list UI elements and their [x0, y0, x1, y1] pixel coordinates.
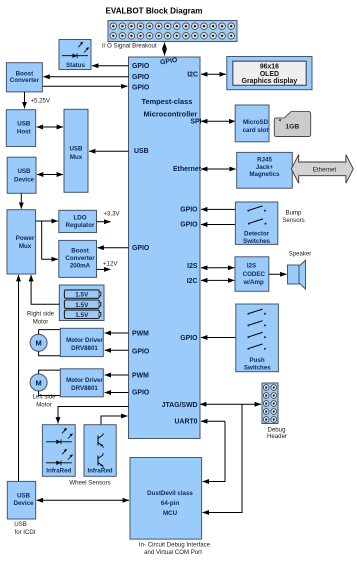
battery 1.5V cell 3: [64, 310, 100, 319]
I2S CODEC box: [235, 257, 269, 292]
svg-text:Motor Driver: Motor Driver: [66, 337, 103, 344]
wire USB to USB Mux: [89, 150, 129, 152]
svg-text:USB: USB: [134, 148, 149, 155]
wire Boost Converter to GPIO: [42, 85, 127, 87]
svg-text:Microcontroller: Microcontroller: [144, 109, 198, 118]
wire M1 to driver top: [39, 330, 61, 335]
wire USB Device - USB Mux: [37, 174, 63, 176]
DustDevil MCU U2: [130, 458, 202, 540]
USB host box: [6, 110, 35, 147]
svg-text:64-pin: 64-pin: [161, 500, 179, 507]
InfraRed emitter box: [42, 425, 75, 477]
wire USB Device - DustDevil: [37, 499, 129, 501]
svg-text:Boost: Boost: [71, 248, 89, 255]
wire GPIO to detector switch 2: [201, 224, 236, 226]
wire GPIO to detector switch 1: [201, 208, 236, 210]
svg-text:Device: Device: [14, 500, 35, 507]
svg-text:USB: USB: [69, 146, 83, 153]
debug header: [262, 383, 278, 424]
wire I2S to CODEC: [201, 267, 234, 269]
wire M1 to driver bottom: [39, 351, 61, 356]
wire SPI to MicroSD: [201, 120, 235, 122]
svg-text:I2S: I2S: [247, 263, 256, 270]
battery 1.5V cell 1: [64, 290, 100, 299]
svg-text:1GB: 1GB: [285, 124, 299, 131]
wire USB Host - USB Mux: [37, 126, 63, 128]
svg-text:CODEC: CODEC: [243, 271, 266, 278]
wire PWM to motor driver 2: [105, 374, 129, 376]
svg-text:Push: Push: [250, 357, 265, 364]
svg-text:MCU: MCU: [163, 510, 178, 517]
svg-text:M: M: [35, 378, 41, 387]
wire GPIO to Boost Converter 200mA: [98, 247, 129, 249]
power mux box: [7, 210, 36, 274]
svg-text:Converter: Converter: [10, 77, 40, 84]
wire Power Mux branch to Boost Converter 200mA: [42, 221, 58, 259]
wire breakout-GPIO vertical double arrow: [164, 43, 166, 56]
USB device box (top): [7, 157, 36, 193]
svg-text:GPIO: GPIO: [132, 349, 150, 356]
svg-text:DustDevil class: DustDevil class: [147, 490, 193, 497]
wire +3.3V output: [97, 221, 111, 223]
svg-text:In- Circuit Debug Interface: In- Circuit Debug Interface: [139, 542, 211, 549]
wire UART0 to DustDevil: [201, 420, 225, 422]
svg-text:EVALBOT Block Diagram: EVALBOT Block Diagram: [106, 7, 203, 16]
svg-text:and Virtual COM Port: and Virtual COM Port: [144, 549, 202, 556]
wire I2C to OLED: [201, 73, 226, 75]
svg-text:96x16: 96x16: [260, 64, 279, 71]
USB mux box: [64, 109, 88, 192]
svg-text:Power: Power: [16, 235, 35, 242]
svg-text:Bump: Bump: [286, 210, 303, 217]
boost converter (5V): [6, 63, 42, 92]
svg-text:MicroSD: MicroSD: [243, 119, 269, 126]
motor driver 1 DRV8801: [60, 328, 103, 356]
svg-text:Device: Device: [14, 176, 35, 183]
wire JTAG/SWD to Debug Header: [200, 403, 261, 405]
svg-text:Regulator: Regulator: [66, 222, 95, 229]
svg-text:Motor: Motor: [36, 402, 52, 409]
motor M1: [30, 334, 47, 351]
push switches box: [236, 304, 279, 372]
wire GPIO to Boost Converter: [43, 76, 128, 78]
svg-text:+3.3V: +3.3V: [104, 210, 121, 217]
SD card 1GB: [274, 112, 310, 137]
wire Power Mux to LDO: [36, 220, 58, 222]
boost converter 200mA box: [59, 240, 97, 277]
svg-text:Speaker: Speaker: [289, 251, 312, 258]
svg-text:USB: USB: [17, 493, 31, 500]
svg-text:Header: Header: [267, 433, 287, 440]
svg-text:I2C: I2C: [187, 71, 198, 78]
svg-text:GPIO: GPIO: [180, 222, 198, 229]
svg-text:I2S: I2S: [187, 263, 198, 270]
wire USB Device down to Power Mux: [20, 193, 22, 208]
detector switches box: [235, 202, 277, 245]
OLED display module: [227, 57, 312, 90]
svg-text:for ICDI: for ICDI: [15, 529, 36, 536]
svg-text:Host: Host: [17, 129, 31, 136]
svg-text:SPI: SPI: [190, 119, 201, 126]
wire I2C to CODEC: [201, 279, 234, 281]
svg-text:Right side: Right side: [27, 311, 55, 318]
svg-text:InfraRed: InfraRed: [87, 467, 112, 474]
MicroSD card slot box: [235, 105, 269, 142]
svg-text:Motor Driver: Motor Driver: [66, 377, 103, 384]
wire CODEC to speaker: [269, 273, 287, 275]
wire +12V output: [97, 268, 111, 270]
svg-text:RJ45: RJ45: [257, 157, 272, 164]
svg-text:card slot: card slot: [243, 127, 269, 134]
USB device box (bottom): [7, 481, 35, 519]
svg-text:Tempest-class: Tempest-class: [142, 97, 193, 106]
svg-text:OLED: OLED: [260, 71, 279, 78]
svg-text:Ethernet: Ethernet: [173, 166, 202, 173]
svg-text:USB: USB: [17, 121, 31, 128]
battery pack: [59, 285, 104, 321]
svg-text:Wheel Sensors: Wheel Sensors: [69, 479, 110, 486]
wire PWM to motor driver 1: [105, 332, 129, 334]
svg-text:LDO: LDO: [73, 214, 86, 221]
svg-text:UART0: UART0: [175, 418, 198, 425]
svg-text:Left side: Left side: [32, 394, 56, 401]
svg-text:InfraRed: InfraRed: [46, 467, 71, 474]
svg-text:USB: USB: [14, 521, 27, 528]
svg-text:GPIO: GPIO: [132, 63, 150, 70]
svg-text:Graphics display: Graphics display: [242, 78, 298, 85]
status LED box: [59, 40, 91, 70]
InfraRed detector box: [84, 425, 116, 477]
wire InfraRed detector to MCU: [101, 416, 128, 425]
svg-text:GPIO: GPIO: [132, 245, 150, 252]
wire Ethernet to RJ45: [201, 168, 236, 170]
svg-text:I/ O Signal Breakout: I/ O Signal Breakout: [102, 43, 157, 50]
wire battery to Power Mux: [31, 275, 59, 304]
svg-text:Converter: Converter: [65, 255, 95, 262]
wire M2 to driver bottom: [39, 391, 61, 396]
svg-text:200mA: 200mA: [70, 263, 91, 270]
svg-text:Jack+: Jack+: [256, 164, 274, 171]
svg-text:Detector: Detector: [244, 230, 270, 237]
Ethernet arrow symbol: [291, 155, 353, 184]
wire GPIO to Status: [92, 65, 129, 67]
wire GPIO to push switches: [201, 337, 236, 339]
svg-text:Status: Status: [66, 62, 85, 69]
svg-text:DRV8801: DRV8801: [71, 345, 98, 352]
svg-text:GPIO: GPIO: [132, 390, 150, 397]
svg-text:GPIO: GPIO: [132, 74, 150, 81]
wire M2 to driver top: [39, 370, 61, 374]
wire GPIO to motor driver 1: [105, 349, 129, 351]
RJ45 jack box: [237, 152, 293, 188]
svg-text:Ethernet: Ethernet: [313, 167, 337, 174]
svg-text:+12V: +12V: [103, 260, 118, 267]
svg-text:Switches: Switches: [244, 365, 271, 372]
LDO regulator box: [59, 210, 97, 232]
svg-text:GPIO: GPIO: [132, 85, 150, 92]
svg-text:M: M: [35, 339, 41, 348]
svg-text:Magnetics: Magnetics: [249, 171, 280, 178]
svg-text:Switches: Switches: [243, 238, 270, 245]
wire GPIO to motor driver 2: [105, 392, 129, 394]
battery 1.5V cell 2: [64, 300, 100, 309]
svg-text:USB: USB: [17, 168, 31, 175]
svg-text:PWM: PWM: [132, 373, 149, 380]
motor driver 2 DRV8801: [60, 369, 103, 397]
I/O signal breakout header: [108, 21, 237, 42]
speaker icon: [288, 260, 306, 289]
svg-text:+5.25V: +5.25V: [31, 97, 51, 104]
svg-text:JTAG/SWD: JTAG/SWD: [162, 402, 198, 409]
wire MCU to InfraRed emitter: [58, 407, 129, 424]
microcontroller U1 Tempest-class: [129, 57, 202, 439]
svg-text:Mux: Mux: [70, 154, 83, 161]
svg-text:Mux: Mux: [19, 243, 32, 250]
motor M2: [30, 374, 47, 391]
svg-text:Sensors: Sensors: [282, 217, 304, 224]
wire USB ICDI to Power Mux: [18, 275, 20, 481]
svg-text:w/Amp: w/Amp: [242, 279, 264, 286]
wire +5.25V to USB Host: [24, 92, 26, 108]
wire JTAG branch to DustDevil: [203, 404, 242, 512]
svg-text:PWM: PWM: [132, 331, 149, 338]
svg-text:I2C: I2C: [187, 278, 198, 285]
svg-text:GPIO: GPIO: [180, 207, 198, 214]
svg-text:DRV8801: DRV8801: [71, 385, 98, 392]
svg-text:GPIO: GPIO: [180, 335, 198, 342]
svg-text:Motor: Motor: [33, 319, 49, 326]
